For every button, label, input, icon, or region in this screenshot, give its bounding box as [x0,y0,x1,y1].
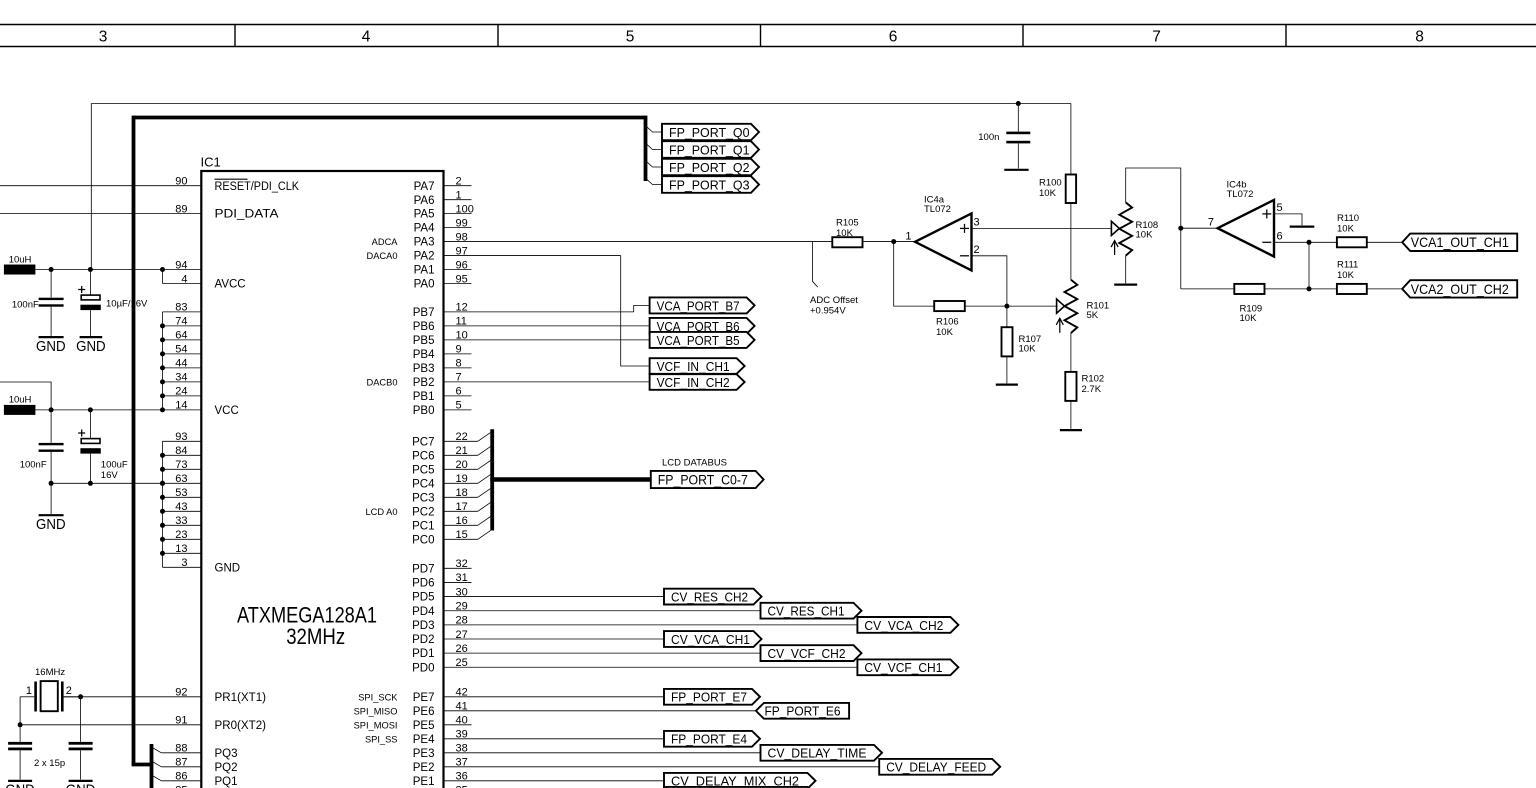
bus FP_PORT_Q right vertical [644,116,648,181]
LCD data bus vertical [490,429,494,530]
pin 6 PB1 [444,395,472,397]
svg-text:VCA_PORT_B5: VCA_PORT_B5 [657,333,740,348]
wire R110 to VCA1_OUT_CH1 [1367,241,1402,243]
pin 3 GND [163,566,202,568]
svg-text:DACA0: DACA0 [366,251,397,261]
inductor L 10uH (AVCC) [4,265,36,275]
resistor R102 2.7K [1065,372,1076,401]
junction VCC at C100uF [88,407,93,412]
svg-text:35: 35 [456,785,468,788]
svg-text:96: 96 [456,259,468,271]
svg-text:PB5: PB5 [413,335,435,347]
svg-text:FP_PORT_E6: FP_PORT_E6 [765,704,841,719]
pin 91 PR0(XT2) [20,724,201,726]
net flag VCA_PORT_B7 [650,297,755,313]
svg-text:PD0: PD0 [412,662,434,674]
wire R101 to R102 [1070,333,1072,372]
svg-text:8: 8 [456,358,462,370]
svg-text:FP_PORT_Q3: FP_PORT_Q3 [669,177,750,192]
pin 89 PDI_DATA [0,213,201,215]
pin 14 VCC [163,409,202,411]
pin 12 PB7 [444,311,634,313]
bus FP_PORT_Q horizontal top [134,116,646,120]
svg-text:32MHz: 32MHz [286,624,345,649]
svg-text:PB0: PB0 [413,405,435,417]
junction crystal pin1 / XT2 [18,722,23,727]
pin 36 PE1 [444,780,665,782]
svg-text:54: 54 [175,344,187,356]
svg-text:FP_PORT_Q2: FP_PORT_Q2 [669,160,750,175]
svg-text:21: 21 [456,445,468,457]
pin 27 PD2 [444,638,665,640]
svg-text:PE3: PE3 [413,748,435,760]
junction AVCC rail at 100n [1016,101,1021,106]
net flag CV_VCF_CH1 [857,659,958,675]
pin 31 PD6 [444,581,472,583]
pin 94 [163,269,202,271]
capacitor 100n (AVCC bypass) [1017,104,1019,132]
svg-text:PR0(XT2): PR0(XT2) [215,720,267,732]
pin 33 [163,524,202,526]
pin 39 PE4 [444,738,665,740]
bus taps to PQ pins [152,747,161,752]
svg-text:40: 40 [456,715,468,727]
pin 64 [163,339,202,341]
svg-text:73: 73 [175,459,187,471]
net flag CV_RES_CH1 [761,603,862,619]
wire DACA0/PA2 to VCF_IN_CH1 [621,256,650,366]
svg-text:CV_RES_CH1: CV_RES_CH1 [768,604,845,619]
svg-text:RESET/PDI_CLK: RESET/PDI_CLK [215,181,300,193]
svg-text:PE6: PE6 [413,706,435,718]
svg-text:10uH: 10uH [9,394,32,405]
svg-text:100uF: 100uF [101,459,128,470]
sheet frame with column numbers 3-8 [0,24,1536,26]
net flag CV_DELAY_MIX_CH1 (cut off) [664,787,816,788]
svg-text:CV_DELAY_MIX_CH2: CV_DELAY_MIX_CH2 [671,774,799,788]
wire IC4b pin6 to R110 [1274,241,1337,243]
junction IC4b pin7 [1178,226,1183,231]
capacitor 15p (left) [8,742,32,745]
svg-text:R110: R110 [1337,213,1359,224]
pin 43 [163,510,202,512]
svg-text:+0.954V: +0.954V [810,305,846,316]
svg-text:R111: R111 [1337,259,1358,270]
svg-text:6: 6 [1277,231,1283,243]
label ADC Offset +0.954V [813,242,818,288]
pin 90 RESET/PDI_CLK [0,185,201,187]
svg-text:1: 1 [456,189,462,201]
svg-text:GND: GND [5,783,35,788]
wire AVCC rail drop at left [90,104,92,270]
pin 15 PC0 [444,538,478,540]
pin 2 PA7 [444,185,472,187]
svg-text:PD1: PD1 [412,648,434,660]
svg-text:18: 18 [456,487,468,499]
svg-text:13: 13 [175,543,187,555]
svg-text:74: 74 [175,316,187,328]
svg-text:42: 42 [456,687,468,699]
net flag CV_VCF_CH2 [761,645,862,661]
pin 28 PD3 [444,624,858,626]
svg-text:100nF: 100nF [12,300,39,311]
junction AVCC at C100nF [49,267,54,272]
junction GND at pin63 tie [160,481,165,486]
ground (IC4b pin5) [1290,226,1315,228]
resistor R110 10K [1337,237,1367,247]
svg-text:10K: 10K [1136,230,1154,241]
net flag FP_PORT_Q0 [662,124,759,140]
net flag CV_VCA_CH1 [664,631,762,647]
pin 20 PC5 [444,468,478,470]
svg-text:DACB0: DACB0 [366,377,397,387]
svg-text:2.7K: 2.7K [1082,384,1102,395]
capacitor 100nF (VCC) [50,410,52,443]
net flag CV_DELAY_TIME [761,745,883,761]
svg-text:86: 86 [175,771,187,783]
svg-text:10K: 10K [1240,313,1258,324]
svg-text:PQ1: PQ1 [215,776,238,788]
svg-text:LCD A0: LCD A0 [365,507,397,517]
svg-text:100n: 100n [978,132,999,143]
svg-text:7: 7 [456,372,462,384]
crystal Q1 16MHz [20,696,34,698]
svg-text:PA4: PA4 [414,223,435,235]
VCC tie junctions [160,323,165,328]
svg-text:26: 26 [456,643,468,655]
wire crystal pin1 down [19,697,21,742]
svg-text:GND: GND [215,562,241,574]
svg-text:1: 1 [905,231,911,243]
svg-text:R100: R100 [1039,178,1062,189]
svg-text:PB7: PB7 [413,307,435,319]
pin 73 [163,468,202,470]
pin 10 PB5 [444,339,650,341]
svg-text:PR1(XT1): PR1(XT1) [215,692,267,704]
svg-text:PD5: PD5 [412,592,434,604]
bus FP_PORT_Q bottom jog [132,763,152,767]
svg-text:VCA2_OUT_CH2: VCA2_OUT_CH2 [1411,282,1509,297]
svg-text:87: 87 [175,757,187,769]
pin 11 PB6 [444,325,650,327]
svg-text:10K: 10K [1337,224,1355,235]
pin 1 PA6 [444,199,472,201]
wire pin6 node down to R111 node [1308,242,1310,289]
svg-text:GND: GND [36,339,66,355]
svg-text:CV_VCF_CH2: CV_VCF_CH2 [768,646,846,661]
svg-text:FP_PORT_E4: FP_PORT_E4 [671,732,747,747]
resistor R109 10K [1234,284,1264,294]
wire digital GND to IC pin63 [51,482,162,484]
pin 8 PB3 [444,367,472,369]
svg-text:PB2: PB2 [413,377,435,389]
net flag FP_PORT_Q3 [662,176,759,193]
svg-text:VCA_PORT_B7: VCA_PORT_B7 [657,298,740,313]
svg-text:6: 6 [456,386,462,398]
wire R108 bottom to ground [1125,256,1127,284]
junction pin6/R110 [1307,240,1312,245]
svg-text:92: 92 [175,687,187,699]
svg-text:19: 19 [456,473,468,485]
resistor R105 10K [832,237,862,247]
svg-text:R102: R102 [1082,373,1105,384]
pin 84 [163,454,202,456]
svg-text:3: 3 [974,217,980,229]
pin 63 [163,482,202,484]
net flag CV_RES_CH2 [664,589,762,605]
svg-text:2: 2 [456,176,462,188]
svg-text:PA6: PA6 [414,195,435,207]
svg-text:10: 10 [456,330,468,342]
svg-text:11: 11 [456,316,467,328]
svg-text:SPI_SCK: SPI_SCK [358,692,398,702]
svg-text:39: 39 [456,729,468,741]
svg-text:ADC Offset: ADC Offset [810,295,858,306]
net flag FP_PORT_Q1 [662,141,759,158]
svg-text:FP_PORT_Q1: FP_PORT_Q1 [669,142,750,157]
svg-text:CV_DELAY_FEED: CV_DELAY_FEED [886,760,986,775]
svg-text:16V: 16V [101,470,119,481]
svg-text:5: 5 [1277,202,1283,214]
ground GND (VCC section) [50,483,52,514]
svg-text:3: 3 [99,28,108,45]
svg-text:31: 31 [456,572,468,584]
svg-text:7: 7 [1208,216,1214,228]
pin 54 [163,353,202,355]
svg-text:4: 4 [362,28,371,45]
svg-text:VCA1_OUT_CH1: VCA1_OUT_CH1 [1411,235,1509,250]
pin 25 PD0 [444,666,858,668]
pin 29 PD4 [444,610,761,612]
svg-text:28: 28 [456,615,468,627]
pin 53 [163,496,202,498]
svg-text:15: 15 [456,529,468,541]
svg-text:17: 17 [456,501,468,513]
svg-text:PB1: PB1 [413,391,435,403]
pin 13 [163,552,202,554]
svg-text:ADCA: ADCA [372,237,399,247]
capacitor 100nF (AVCC) [50,270,52,298]
junction IC4a pin1 feedback [891,239,896,244]
svg-text:LCD DATABUS: LCD DATABUS [662,457,727,468]
junction AVCC at C10uF [88,267,93,272]
svg-text:PDI_DATA: PDI_DATA [215,209,279,221]
junction VCC at pin14 tie [160,407,165,412]
net flag VCA1_OUT_CH1 [1402,234,1517,251]
svg-text:TL072: TL072 [1227,189,1254,200]
resistor R106 10K [934,301,965,311]
svg-text:PA1: PA1 [414,265,435,277]
svg-text:10K: 10K [1337,270,1355,281]
resistor R100 10K [1066,175,1076,204]
pin 7 PB2 [444,381,650,383]
svg-text:98: 98 [456,231,468,243]
svg-text:5: 5 [626,28,635,45]
svg-text:PQ2: PQ2 [215,762,238,774]
svg-text:PC4: PC4 [412,478,435,490]
svg-text:PD6: PD6 [412,578,434,590]
svg-text:PA3: PA3 [414,237,435,249]
pin 19 PC4 [444,482,478,484]
junction R111 node [1307,286,1312,291]
wire feedback loop [894,242,1057,307]
svg-text:24: 24 [175,386,187,398]
svg-text:43: 43 [175,501,187,513]
pin 18 PC3 [444,496,478,498]
net flag FP_PORT_E7 [664,689,760,705]
svg-text:5: 5 [456,400,462,412]
svg-text:CV_RES_CH2: CV_RES_CH2 [671,589,748,604]
svg-text:1: 1 [26,685,32,697]
svg-text:CV_VCF_CH1: CV_VCF_CH1 [864,660,942,675]
wire R109 row [1181,288,1337,290]
svg-text:9: 9 [456,344,462,356]
IC IC1 ATXMEGA128A1 body [201,171,443,788]
svg-text:PA7: PA7 [414,181,435,193]
pin 86 PQ1 [161,780,201,782]
net flag CV_DELAY_MIX_CH2 [664,773,816,788]
svg-text:PC2: PC2 [412,506,434,518]
pin 16 PC1 [444,524,478,526]
svg-text:10K: 10K [836,228,854,239]
svg-text:99: 99 [456,217,468,229]
trimmer R108 10K [1119,202,1132,255]
svg-text:97: 97 [456,245,468,257]
svg-text:PC7: PC7 [412,436,434,448]
svg-text:GND: GND [66,783,96,788]
wire R100 to R101 [1070,203,1072,280]
svg-text:64: 64 [175,330,187,342]
resistor R107 10K [1002,327,1013,356]
pin 87 PQ2 [161,766,201,768]
svg-text:37: 37 [456,757,468,769]
svg-text:GND: GND [76,339,106,355]
pin 44 [163,367,202,369]
svg-text:6: 6 [889,28,898,45]
wire VCC from inductor to IC pin14 [35,409,162,411]
svg-text:PE5: PE5 [413,720,435,732]
svg-text:PQ3: PQ3 [215,748,238,760]
wire IC4b pin5 to ground [1274,214,1302,225]
pin 98 PA3 [444,241,833,243]
svg-text:30: 30 [456,586,468,598]
pin 32 PD7 [444,567,472,569]
capacitor 10uF/16V polarized (AVCC) [89,270,91,296]
svg-text:10uH: 10uH [9,254,32,265]
wire R105 output to op-amp [863,241,916,243]
svg-text:R106: R106 [936,316,959,327]
net flag FP_PORT_C0-7 [651,471,764,488]
junction VCC at C100nF [49,407,54,412]
GND pin tie [162,441,164,567]
svg-text:14: 14 [175,400,187,412]
pin 37 PE2 [444,766,880,768]
svg-text:27: 27 [456,629,468,641]
svg-text:VCC: VCC [215,405,239,417]
pin 21 PC6 [444,454,478,456]
svg-text:10µF/16V: 10µF/16V [106,298,148,309]
svg-text:PB6: PB6 [413,321,435,333]
net flag CV_VCA_CH2 [857,617,958,633]
pin 17 PC2 [444,510,478,512]
wire R107 to ground [1006,356,1008,383]
pin 100 PA5 [444,213,472,215]
pin 5 PB0 [444,409,472,411]
svg-text:PB4: PB4 [413,349,435,361]
pin 23 [163,538,202,540]
svg-text:AVCC: AVCC [215,279,246,291]
bus FP_PORT_Q lower vertical [150,744,154,788]
AVCC pin tie [162,270,164,284]
pin 4 AVCC [163,282,202,284]
svg-text:29: 29 [456,601,468,613]
pin 88 PQ3 [161,752,201,754]
svg-text:44: 44 [175,358,187,370]
svg-text:PD7: PD7 [412,563,434,575]
capacitor 15p (right) [80,697,82,742]
svg-text:PA0: PA0 [414,279,435,291]
ground (under R108) [1114,284,1137,286]
net flag VCF_IN_CH2 [650,374,745,390]
svg-text:R105: R105 [836,217,859,228]
svg-text:IC1: IC1 [201,155,221,170]
net flag FP_PORT_E4 [664,731,760,747]
wire AVCC from inductor to IC pin94 [35,269,162,271]
LCD bus taps (diagonals) [478,433,491,442]
op-amp IC4a TL072 [915,213,972,270]
svg-text:VCF_IN_CH2: VCF_IN_CH2 [657,375,730,390]
svg-text:20: 20 [456,459,468,471]
svg-text:100nF: 100nF [20,459,47,470]
pin 34 [163,381,202,383]
pin 99 PA4 [444,227,472,229]
svg-text:41: 41 [456,701,468,713]
svg-text:SPI_MOSI: SPI_MOSI [354,720,398,730]
wire IC4b pin7 [1181,227,1218,229]
svg-text:8: 8 [1415,28,1424,45]
svg-text:GND: GND [36,517,66,533]
pin 92 PR1(XT1) [64,696,202,698]
svg-text:5K: 5K [1087,310,1099,321]
trimmer R101 5K [1065,280,1078,333]
pin 26 PD1 [444,652,761,654]
svg-text:33: 33 [175,515,187,527]
net flag VCA2_OUT_CH2 [1402,280,1517,297]
op-amp IC4b TL072 [1218,200,1274,257]
svg-text:94: 94 [175,259,187,271]
svg-text:38: 38 [456,743,468,755]
resistor R111 10K [1337,284,1367,294]
svg-text:85: 85 [175,785,187,788]
svg-text:36: 36 [456,771,468,783]
net flag CV_DELAY_FEED [879,759,1000,775]
wire R102 to ground [1070,401,1072,429]
svg-text:PE1: PE1 [413,776,435,788]
svg-text:FP_PORT_Q0: FP_PORT_Q0 [669,125,750,140]
capacitor 100uF 16V polarized (VCC) [89,410,91,439]
svg-text:10K: 10K [1039,188,1057,199]
pin 24 [163,395,202,397]
net flag FP_PORT_Q2 [662,159,759,175]
svg-text:PA5: PA5 [414,209,435,221]
svg-text:100: 100 [456,203,474,215]
svg-text:SPI_SS: SPI_SS [365,734,398,744]
bus taps to FP_PORT_Q flags [647,127,663,132]
junction feedback/R107 [1004,304,1009,309]
svg-text:16MHz: 16MHz [35,667,65,678]
svg-text:3: 3 [181,557,187,569]
inductor L 10uH (VCC) [4,405,36,415]
